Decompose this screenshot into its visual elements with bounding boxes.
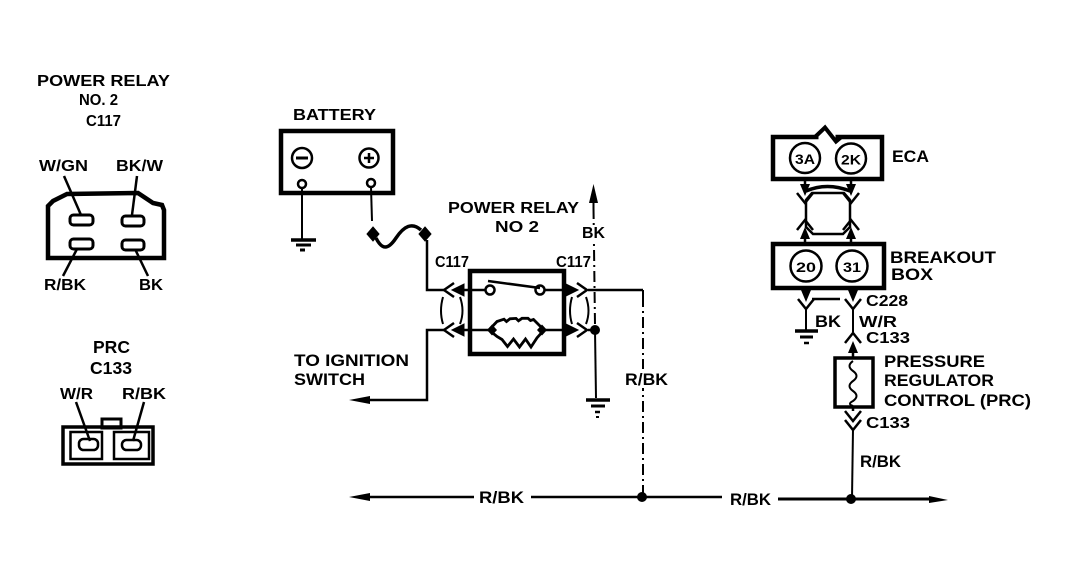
breakout box pin 31 [837,251,868,282]
svg-text:PRESSURE: PRESSURE [884,352,985,371]
bus wire segment 2 [531,496,722,499]
connector C133 left cell [71,432,103,459]
battery B1 (box) [281,131,393,193]
connector C133 PRC (face view outline) [63,427,153,464]
connector arrows breakout box to inline connector (left wire) [797,220,813,244]
ECA box [773,128,882,180]
svg-text:W/GN: W/GN [39,158,88,175]
relay contact left post [486,286,495,295]
leader line BK to pin [135,249,148,276]
svg-text:2K: 2K [841,152,861,168]
connector arrows ECA to inline connector (left wire) [797,179,813,203]
pin R/BK (right cavity) [122,440,141,450]
pin R/BK (bottom-left cavity) [70,239,93,249]
label BREAKOUT BOX [890,248,997,284]
ECA pin 2K [836,144,866,174]
svg-text:W/R: W/R [859,314,898,331]
svg-text:CONTROL (PRC): CONTROL (PRC) [884,391,1031,410]
label POWER RELAY NO. 2 (top-left connector title) [37,73,170,130]
label PRESSURE REGULATOR CONTROL (PRC) [884,352,1031,410]
ECA pin 3A [790,143,820,173]
battery negative post [298,180,306,188]
breakout box pin 20 [791,251,822,282]
label TO IGNITION SWITCH [294,351,409,389]
connector C133 (chevron and arrow above PRC) [845,333,861,358]
svg-text:SWITCH: SWITCH [294,370,365,389]
wire relay contact output right [588,289,643,292]
svg-text:R/BK: R/BK [860,452,902,471]
wire junction to relay chevrons [588,329,595,332]
ground (battery negative) [291,240,316,250]
connector C133 right cell [114,432,149,459]
svg-text:C117: C117 [556,254,591,271]
svg-text:R/BK: R/BK [730,490,772,509]
svg-text:R/BK: R/BK [479,488,525,507]
relay contact wire right [545,289,564,292]
bus wire right arrow [929,496,948,503]
inline connector body (octagon between ECA and breakout box) [806,187,850,235]
connector C228 (right wire W/R below breakout box) [845,288,861,332]
svg-text:ECA: ECA [892,147,929,166]
relay contact wire left [470,289,486,292]
connector arrows breakout box to inline connector (right wire) [843,220,859,244]
arrow BK wire up [589,184,598,203]
leader line W/GN to pin [64,176,81,215]
bus wire segment 1 [358,496,474,499]
relay K1 power relay no.2 (box) [470,271,564,354]
svg-text:NO 2: NO 2 [495,219,539,236]
pin W/R (left cavity) [79,439,98,450]
connector C117 left half (chevrons at relay left) [441,283,470,337]
leader line BK/W to pin [132,176,137,215]
svg-text:W/R: W/R [60,386,93,403]
relay coil wire left [470,329,492,332]
connector C228 bar between wires [812,298,840,301]
svg-text:C117: C117 [435,254,469,271]
relay contact blade [488,281,540,288]
wire BK dash-dot up from junction [594,202,596,325]
svg-text:20: 20 [796,259,816,275]
svg-text:R/BK: R/BK [44,277,86,294]
ground (relay coil) [586,400,610,417]
svg-text:R/BK: R/BK [122,386,167,403]
svg-text:TO IGNITION: TO IGNITION [294,351,409,370]
label POWER RELAY NO 2 (relay title) [448,200,579,236]
battery negative terminal symbol [292,148,312,168]
svg-text:BK/W: BK/W [116,158,164,175]
leader line R/BK to pin [63,249,77,276]
bus wire R/BK left arrow [349,493,370,501]
wire battery positive down [371,187,372,221]
wire battery negative to ground [301,188,303,239]
svg-text:C133: C133 [866,330,910,347]
connector arrows ECA to inline connector (right wire) [843,179,859,203]
breakout box [773,244,884,288]
connector C117 right half (chevrons at relay right) [564,283,589,337]
connector C133 top tab [102,419,121,428]
inline connector diamond (relay side) [419,227,431,241]
wire PRC down to bus [852,429,853,498]
pin BK/W (top-right cavity) [122,216,144,226]
pin BK (bottom-right cavity) [122,240,144,250]
svg-text:31: 31 [843,259,861,275]
relay coil body [487,318,547,347]
svg-text:R/BK: R/BK [625,370,669,389]
svg-text:BK: BK [582,225,605,242]
label PRC C133 (bottom-left connector title) [90,337,132,378]
relay contact right post [536,286,545,295]
wire junction down to ground [595,330,596,398]
svg-text:REGULATOR: REGULATOR [884,371,994,390]
svg-text:BOX: BOX [891,265,934,284]
leader line R/BK to pin [133,402,144,441]
svg-text:POWER RELAY: POWER RELAY [448,200,579,217]
label BK (wire up from relay) [584,225,612,242]
wire R/BK dash-dot down to bus [642,290,644,486]
connector C228 (left wire BK below breakout box) [798,288,814,330]
wire diamond down to relay C117 [427,240,444,290]
junction relay coil output [590,325,600,335]
svg-text:BK: BK [815,312,842,331]
junction bus and PRC wire [846,494,856,504]
svg-text:BK: BK [139,277,163,294]
battery positive post [367,179,375,187]
svg-text:C117: C117 [86,113,121,130]
svg-text:3A: 3A [795,151,815,167]
pin W/GN (top-left cavity) [70,215,93,225]
label R/BK (vertical wire) [623,369,671,388]
connector C117 power relay no.2 (face view outline) [48,193,164,258]
svg-text:BATTERY: BATTERY [293,107,376,124]
ground (BK wire) [795,331,818,343]
junction bus and relay contact wire [637,492,647,502]
wire relay coil to ignition switch [357,330,444,400]
connector C133 (chevrons below PRC) [845,407,861,430]
pressure regulator control PRC (box with coil) [835,358,873,407]
svg-text:NO. 2: NO. 2 [79,92,118,109]
svg-text:C228: C228 [866,293,908,310]
svg-text:C133: C133 [866,415,910,432]
relay coil wire right [541,329,564,332]
arrow to ignition switch [349,396,370,404]
leader line W/R to pin [76,402,90,441]
svg-text:PRC: PRC [93,337,130,357]
svg-text:C133: C133 [90,358,132,378]
battery positive terminal symbol [360,149,379,168]
wire S-curve battery to relay [376,226,421,247]
inline connector diamond (battery side) [367,227,379,241]
bus wire segment 3 [778,498,936,501]
svg-text:POWER RELAY: POWER RELAY [37,73,170,90]
